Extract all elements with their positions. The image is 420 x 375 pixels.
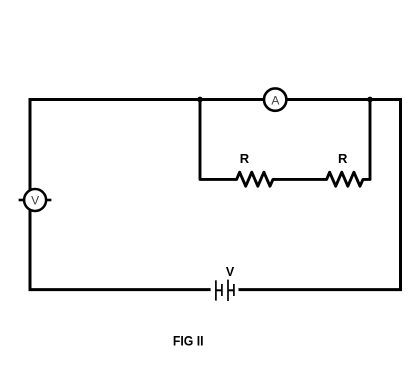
svg-text:A: A (271, 94, 279, 108)
svg-text:R: R (240, 151, 250, 166)
svg-text:V: V (31, 193, 39, 207)
svg-text:V: V (226, 265, 235, 279)
svg-text:FIG II: FIG II (173, 334, 204, 350)
svg-text:R: R (338, 151, 348, 166)
